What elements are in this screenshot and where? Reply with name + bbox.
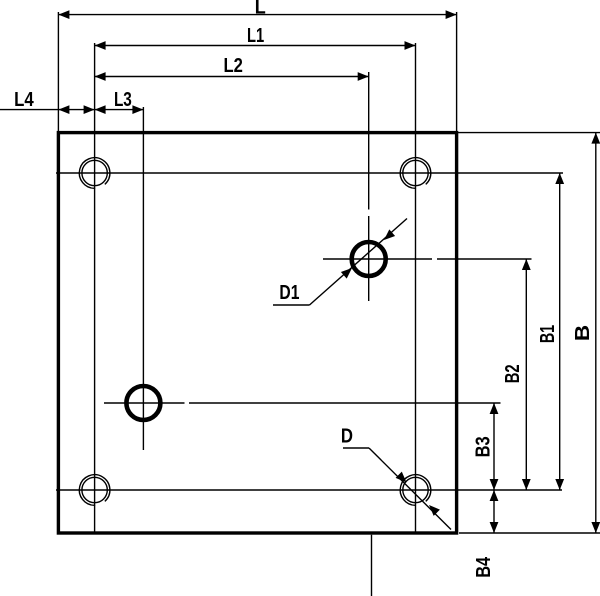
svg-text:D: D — [341, 425, 353, 448]
svg-text:L1: L1 — [247, 24, 264, 47]
svg-text:L3: L3 — [114, 88, 132, 111]
svg-text:L4: L4 — [14, 88, 34, 111]
svg-text:D1: D1 — [279, 281, 299, 304]
svg-text:B3: B3 — [472, 436, 495, 457]
svg-text:B4: B4 — [472, 556, 495, 577]
svg-text:B1: B1 — [536, 325, 559, 343]
svg-text:L2: L2 — [224, 54, 243, 77]
svg-text:B: B — [571, 325, 594, 341]
svg-text:B2: B2 — [501, 364, 524, 383]
svg-text:L: L — [255, 0, 266, 18]
